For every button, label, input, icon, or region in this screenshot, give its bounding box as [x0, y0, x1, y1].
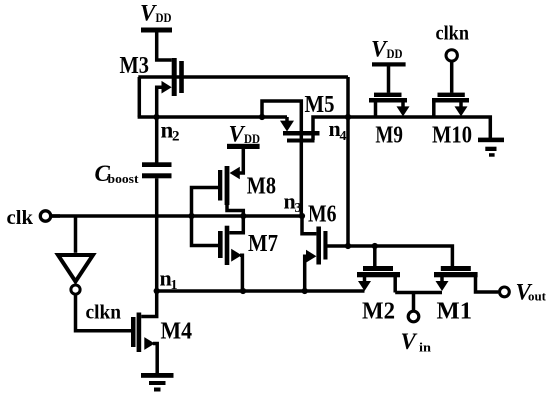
svg-text:in: in — [419, 340, 432, 355]
svg-text:clkn: clkn — [436, 24, 470, 45]
svg-text:M6: M6 — [308, 202, 337, 228]
svg-text:M3: M3 — [120, 53, 150, 79]
svg-text:M10: M10 — [432, 123, 472, 149]
svg-text:M2: M2 — [362, 299, 395, 325]
svg-text:out: out — [528, 289, 547, 304]
svg-text:clkn: clkn — [86, 303, 122, 324]
svg-text:boost: boost — [108, 171, 140, 186]
svg-text:M9: M9 — [375, 123, 403, 149]
svg-text:M5: M5 — [305, 92, 335, 118]
svg-text:DD: DD — [387, 47, 403, 61]
svg-text:V: V — [140, 1, 157, 26]
svg-text:M8: M8 — [247, 174, 276, 200]
svg-text:3: 3 — [295, 201, 302, 216]
svg-text:M7: M7 — [248, 231, 278, 257]
svg-text:V: V — [229, 122, 246, 147]
svg-text:M1: M1 — [437, 299, 473, 325]
svg-text:DD: DD — [156, 11, 172, 25]
svg-text:DD: DD — [244, 132, 260, 146]
svg-text:4: 4 — [340, 129, 347, 144]
svg-text:M4: M4 — [161, 319, 193, 345]
svg-text:2: 2 — [172, 129, 180, 145]
svg-text:V: V — [371, 37, 388, 62]
svg-text:V: V — [401, 329, 418, 354]
svg-text:1: 1 — [171, 278, 178, 293]
svg-text:clk: clk — [7, 207, 34, 229]
